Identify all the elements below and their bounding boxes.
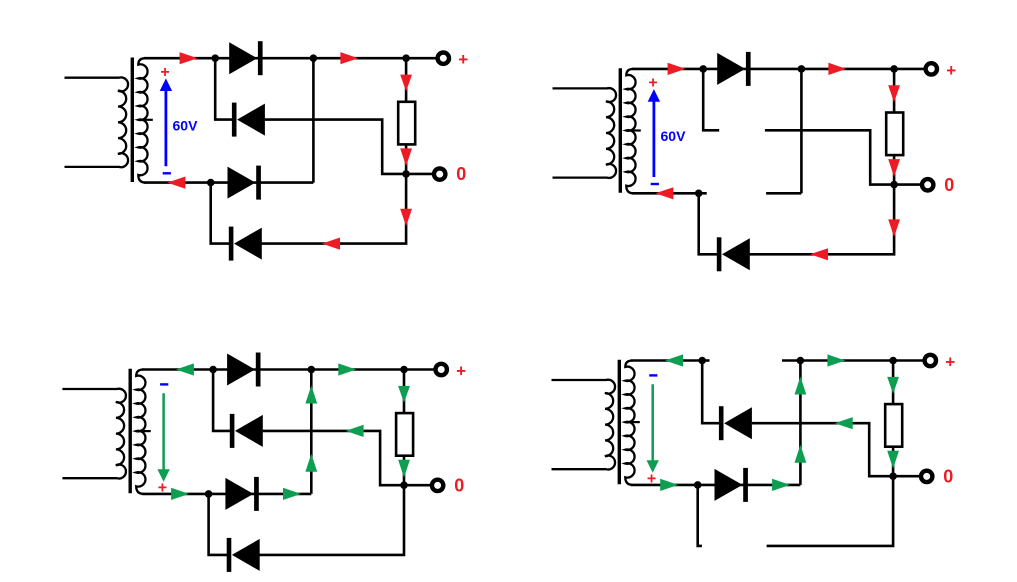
voltage arrow line 60V (Q1) bbox=[164, 86, 167, 166]
current arrow secondary-top out (Q2) bbox=[668, 63, 686, 75]
node A junction (Q2) bbox=[699, 65, 707, 73]
wire node A down to D2 cathode (Q1) bbox=[215, 58, 233, 119]
wire D2 anode to 0 rail (Q1) bbox=[265, 120, 406, 174]
current arrow up to node 2 lower (Q3) bbox=[305, 454, 317, 472]
transformer T1 core (Q2) bbox=[619, 68, 622, 193]
current arrow into load (Q1) bbox=[400, 75, 412, 92]
diode D1 (Q3) bbox=[227, 354, 255, 386]
diode D4 (Q2) bbox=[717, 237, 722, 271]
current arrow into load (Q3) bbox=[398, 386, 410, 403]
node 2 junction (Q2) bbox=[798, 65, 806, 73]
svg-text:60V: 60V bbox=[661, 128, 687, 144]
current arrow after D3 (Q3) bbox=[283, 488, 301, 500]
wire node 2 down (removed D3) (Q2) bbox=[800, 69, 803, 193]
0 rail junction (Q4) bbox=[889, 472, 897, 480]
svg-text:0: 0 bbox=[943, 467, 953, 487]
diode D1 (Q2) bbox=[717, 53, 745, 85]
resistor R load (Q4) bbox=[885, 404, 902, 447]
wire + junction to + terminal (Q2) bbox=[894, 68, 924, 71]
voltage arrow line 60V reversed (Q4) bbox=[651, 384, 654, 461]
transformer T1 primary winding (Q3) bbox=[62, 389, 126, 479]
transformer T1 secondary center tap stub (Q4) bbox=[625, 421, 640, 423]
0 rail junction (Q1) bbox=[402, 170, 410, 178]
wire node A through D1 to + rail (Q3) bbox=[213, 368, 404, 371]
node A junction (Q4) bbox=[698, 357, 706, 365]
node 2 junction (Q4) bbox=[797, 357, 805, 365]
voltage arrow head down (Q4) bbox=[647, 460, 659, 473]
current arrow secondary-bottom return (Q2) bbox=[655, 187, 673, 199]
svg-text:+: + bbox=[458, 50, 468, 69]
current arrow + rail (Q2) bbox=[828, 63, 846, 75]
node B junction (Q1) bbox=[207, 179, 215, 187]
current arrow out of load (Q3) bbox=[398, 460, 410, 478]
svg-text:60V: 60V bbox=[173, 117, 199, 133]
wire secondary-top to node A (Q2) bbox=[632, 68, 703, 71]
transformer T1 core (Q1) bbox=[131, 58, 134, 183]
transformer T1 secondary winding (Q1) bbox=[138, 58, 147, 182]
current arrow up to node 2 upper (Q3) bbox=[305, 386, 317, 404]
wire stub node A down (removed D2) (Q2) bbox=[703, 69, 719, 130]
wire node B down to D4 cathode (Q1) bbox=[211, 183, 230, 244]
output terminal + (Q4) bbox=[925, 355, 936, 366]
transformer T1 secondary winding (Q4) bbox=[625, 361, 634, 485]
wire + rail stub to + junction (Q4) bbox=[782, 359, 893, 362]
svg-text:+: + bbox=[456, 362, 466, 381]
wire + junction to + terminal (Q4) bbox=[893, 359, 923, 362]
diode D3 (Q1) bbox=[228, 167, 256, 199]
output terminal + (Q1) bbox=[438, 53, 449, 64]
wire D2 anode to 0 rail (Q4) bbox=[752, 423, 893, 476]
svg-text:0: 0 bbox=[944, 175, 954, 195]
wire stub D3 cathode (Q2) bbox=[766, 192, 801, 195]
diode D2 (Q1) bbox=[232, 103, 237, 137]
voltage arrow line 60V reversed (Q3) bbox=[162, 393, 165, 470]
diode D2 (Q4) bbox=[719, 406, 724, 440]
wire D4 anode to 0 junction (Q1) bbox=[262, 174, 407, 244]
output terminal + (Q2) bbox=[926, 63, 937, 74]
transformer T1 secondary winding (Q3) bbox=[136, 370, 145, 494]
resistor R load (Q1) bbox=[398, 102, 415, 145]
voltage arrow line 60V (Q2) bbox=[653, 97, 656, 177]
transformer T1 core (Q4) bbox=[618, 360, 621, 485]
current arrow up to node 2 lower (Q4) bbox=[795, 445, 807, 463]
current arrow secondary-bottom out (Q4) bbox=[660, 479, 678, 491]
diode D2 (Q3) bbox=[230, 414, 235, 448]
svg-text:+: + bbox=[945, 353, 955, 372]
transformer T1 primary winding (Q1) bbox=[65, 77, 129, 167]
node B junction (Q4) bbox=[694, 481, 702, 489]
voltage polarity - (Q3) bbox=[160, 383, 168, 385]
current arrow + rail (Q1) bbox=[340, 52, 358, 64]
resistor R load (Q2) bbox=[886, 113, 903, 156]
transformer T1 primary winding (Q2) bbox=[553, 88, 617, 178]
current arrow into D2 (Q4) bbox=[835, 417, 853, 429]
current arrow into load (Q2) bbox=[888, 85, 900, 102]
0 rail junction (Q3) bbox=[400, 481, 408, 489]
+ rail junction (Q2) bbox=[890, 65, 898, 73]
current arrow into D4 (Q2) bbox=[810, 248, 828, 260]
transformer T1 secondary center tap stub (Q3) bbox=[136, 430, 151, 432]
svg-text:+: + bbox=[158, 479, 167, 496]
current arrow secondary-top out (Q1) bbox=[180, 52, 198, 64]
node B junction (Q2) bbox=[695, 190, 703, 198]
wire D3 cathode up to node 2 (Q1) bbox=[312, 58, 315, 182]
node A junction (Q3) bbox=[209, 366, 217, 374]
node B junction (Q3) bbox=[205, 490, 213, 498]
wire + junction through load to 0 junction (Q3) bbox=[403, 370, 406, 486]
current arrow + rail (Q4) bbox=[827, 354, 845, 366]
wire secondary-bottom through D3 (Q3) bbox=[142, 493, 311, 496]
diode D3 (Q3) bbox=[225, 478, 253, 510]
voltage polarity - (Q1) bbox=[163, 172, 171, 174]
current arrow + rail (Q3) bbox=[338, 363, 356, 375]
wire stub D2 anode to 0 rail (Q2) bbox=[765, 130, 894, 184]
0 rail junction (Q2) bbox=[890, 181, 898, 189]
diode D4 (Q1) bbox=[229, 227, 234, 261]
wire secondary-bottom to node B (Q2) bbox=[632, 192, 707, 195]
wire stub D4 anode to 0 junction (Q4) bbox=[767, 476, 894, 546]
transformer T1 secondary center tap stub (Q2) bbox=[626, 129, 641, 131]
transformer T1 secondary center tap stub (Q1) bbox=[138, 119, 153, 121]
wire D3 cathode up to node 2 (Q3) bbox=[310, 370, 313, 494]
diode D1 (Q1) bbox=[229, 42, 257, 74]
wire + junction through load to 0 junction (Q4) bbox=[892, 361, 895, 477]
wire node A down to D2 cathode (Q3) bbox=[213, 370, 231, 431]
wire node B down to D4 cathode (Q3) bbox=[209, 494, 228, 555]
wire secondary-top to node A (Q3) bbox=[142, 368, 213, 371]
resistor R load (Q3) bbox=[396, 413, 413, 456]
transformer T1 core (Q3) bbox=[128, 369, 131, 494]
wire + junction to + terminal (Q3) bbox=[404, 368, 434, 371]
current arrow out of load (Q4) bbox=[887, 451, 899, 469]
current arrow up to node 2 upper (Q4) bbox=[795, 377, 807, 395]
wire + junction to + terminal (Q1) bbox=[406, 57, 436, 60]
+ rail junction (Q1) bbox=[402, 54, 410, 62]
voltage polarity - (Q2) bbox=[651, 183, 659, 185]
current arrow after D3 (Q4) bbox=[772, 479, 790, 491]
svg-text:0: 0 bbox=[456, 164, 466, 184]
wire D2 anode to 0 rail (Q3) bbox=[263, 431, 404, 485]
current arrow 0 rail down to D4 (Q2) bbox=[888, 219, 900, 237]
current arrow out of load (Q1) bbox=[400, 148, 412, 166]
wire + junction through load to 0 junction (Q2) bbox=[893, 69, 896, 185]
current arrow secondary-top return (Q3) bbox=[176, 363, 194, 375]
wire 0 junction to 0 terminal (Q1) bbox=[406, 173, 432, 176]
voltage arrow head (Q2) bbox=[648, 89, 660, 102]
svg-text:+: + bbox=[648, 75, 657, 92]
current arrow into D2 (Q3) bbox=[346, 425, 364, 437]
current arrow secondary-top return (Q4) bbox=[665, 354, 683, 366]
current arrow 0 rail down to D4 (Q1) bbox=[400, 209, 412, 227]
node 2 junction (Q3) bbox=[308, 366, 316, 374]
wire secondary-top to node A (Q1) bbox=[144, 57, 215, 60]
svg-text:+: + bbox=[946, 61, 956, 80]
diode D4 (Q3) bbox=[227, 538, 232, 572]
wire 0 junction to 0 terminal (Q2) bbox=[894, 183, 920, 186]
voltage arrow head (Q1) bbox=[160, 78, 172, 91]
output terminal 0 (Q2) bbox=[922, 179, 933, 190]
voltage polarity - (Q4) bbox=[649, 374, 657, 376]
wire secondary-bottom through D3 (Q4) bbox=[631, 484, 800, 487]
diode D3 (Q4) bbox=[715, 469, 743, 501]
output terminal + (Q3) bbox=[436, 364, 447, 375]
output terminal 0 (Q1) bbox=[434, 168, 445, 179]
wire node B down to D4 cathode (Q2) bbox=[699, 193, 718, 254]
transformer T1 primary winding (Q4) bbox=[552, 380, 616, 470]
svg-text:+: + bbox=[160, 64, 169, 81]
wire stub node B down (removed D4) (Q4) bbox=[698, 485, 702, 546]
wire 0 junction to 0 terminal (Q4) bbox=[893, 475, 919, 478]
wire secondary-top to node A (Q4) bbox=[631, 359, 702, 362]
wire secondary-bottom through D3 (Q1) bbox=[144, 181, 313, 184]
current arrow secondary-bottom return (Q1) bbox=[167, 177, 185, 189]
+ rail junction (Q4) bbox=[889, 357, 897, 365]
current arrow secondary-bottom out (Q3) bbox=[171, 488, 189, 500]
svg-text:+: + bbox=[647, 470, 656, 487]
+ rail junction (Q3) bbox=[400, 366, 408, 374]
current arrow into D4 (Q1) bbox=[322, 238, 340, 250]
node A junction (Q1) bbox=[211, 54, 219, 62]
output terminal 0 (Q3) bbox=[432, 480, 443, 491]
wire D4 anode to 0 junction (Q2) bbox=[750, 185, 895, 255]
wire node A through D1 to + rail (Q2) bbox=[703, 68, 894, 71]
svg-text:0: 0 bbox=[454, 476, 464, 496]
wire D3 cathode up to node 2 (Q4) bbox=[799, 361, 802, 485]
wire node A down to D2 cathode (Q4) bbox=[702, 361, 720, 424]
wire stub right of node A (Q4) bbox=[702, 359, 709, 362]
wire + junction through load to 0 junction (Q1) bbox=[405, 58, 408, 174]
current arrow into load (Q4) bbox=[887, 377, 899, 394]
wire node A through D1 to + rail (Q1) bbox=[215, 57, 406, 60]
output terminal 0 (Q4) bbox=[921, 471, 932, 482]
transformer T1 secondary winding (Q2) bbox=[626, 69, 635, 193]
current arrow out of load (Q2) bbox=[888, 159, 900, 177]
wire 0 junction to 0 terminal (Q3) bbox=[404, 484, 430, 487]
voltage arrow head down (Q3) bbox=[157, 469, 169, 482]
node 2 junction (Q1) bbox=[310, 54, 318, 62]
wire D4 anode to 0 junction (Q3) bbox=[260, 485, 405, 555]
